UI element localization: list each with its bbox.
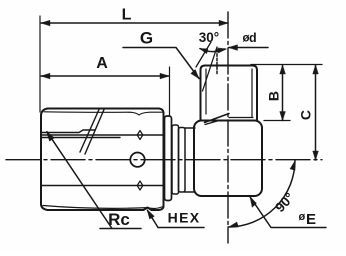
body top extension line <box>264 120 290 122</box>
diameter d arrow <box>229 45 238 51</box>
svg-text:30°: 30° <box>199 30 219 45</box>
label Rc underline <box>100 228 141 230</box>
weep hole circle <box>130 153 144 167</box>
svg-text:B: B <box>266 91 282 101</box>
centerline horizontal <box>6 159 322 161</box>
label Rc leader <box>47 132 112 229</box>
diameter E leader <box>250 197 326 228</box>
dimension A line <box>41 75 169 77</box>
Rc thread major line <box>41 130 95 133</box>
diameter d leader <box>229 47 269 49</box>
90 degree arrow bottom <box>229 222 239 227</box>
chamfer extension line inner <box>203 47 218 91</box>
label G leader <box>123 48 199 79</box>
svg-text:ø: ø <box>299 211 306 223</box>
thread section diagonal 1 <box>80 110 99 153</box>
male thread outer right <box>253 66 258 121</box>
hole hidden line <box>216 50 218 75</box>
svg-text:Rc: Rc <box>108 210 130 229</box>
hex body outline <box>41 109 164 211</box>
dimension A arrow right <box>160 73 169 79</box>
thread runout diagonal 2 <box>205 121 219 125</box>
dimension L extension left <box>39 16 41 112</box>
centerline vertical <box>227 12 229 243</box>
label G arrow <box>191 70 199 79</box>
male thread root left <box>205 69 207 114</box>
hex lower diamond <box>137 181 143 190</box>
30 degree arc arrow right <box>218 48 227 53</box>
label HEX underline <box>158 227 204 229</box>
90 degree arrow top <box>290 161 295 171</box>
dimension B arrow bottom <box>280 112 286 121</box>
dimension A arrow left <box>41 73 50 79</box>
hex upper diamond <box>137 131 143 140</box>
hex lower edge line <box>41 185 164 187</box>
90 degree arc <box>228 160 295 227</box>
svg-text:A: A <box>96 55 108 72</box>
top extension line <box>251 64 322 66</box>
svg-text:HEX: HEX <box>168 210 201 226</box>
svg-text:G: G <box>140 29 153 48</box>
dimension C line <box>315 65 317 160</box>
hex top face arcs <box>44 112 163 115</box>
dimension L line <box>41 22 228 24</box>
diameter E arrow <box>250 197 257 208</box>
label Rc arrow <box>47 132 55 142</box>
svg-text:90°: 90° <box>272 190 297 215</box>
label HEX leader <box>148 211 159 228</box>
hex bottom face arcs <box>43 206 163 209</box>
Rc thread minor line <box>41 137 120 139</box>
male thread outer left <box>201 66 206 121</box>
groove ring <box>172 125 179 194</box>
30 degree arc arrow left <box>200 49 209 54</box>
collar ring <box>165 116 172 201</box>
chamfer extension line <box>196 42 211 67</box>
dimension C arrow top <box>313 65 319 74</box>
thread runout horizontal <box>229 117 253 119</box>
dimension L arrow right <box>219 20 228 26</box>
neck bottom line <box>185 191 196 193</box>
dimension C arrow bottom <box>313 151 319 160</box>
male thread root right <box>251 69 253 118</box>
thread runout diagonal <box>205 114 230 123</box>
svg-text:L: L <box>122 7 132 24</box>
svg-text:E: E <box>306 211 316 228</box>
spacer ring <box>179 128 186 193</box>
dimension A extension right <box>169 67 171 115</box>
dimension B line <box>282 65 284 121</box>
label HEX arrow <box>147 210 154 220</box>
svg-text:C: C <box>298 110 314 120</box>
thread section diagonal 2 <box>85 110 104 155</box>
dimension B arrow top <box>280 65 286 74</box>
30 degree arc <box>200 49 225 52</box>
neck top line <box>185 127 196 129</box>
svg-text:d: d <box>249 31 257 45</box>
dimension L arrow left <box>41 20 50 26</box>
hex upper edge line <box>41 134 164 136</box>
body outline <box>194 121 262 197</box>
male thread top edge <box>205 65 253 67</box>
